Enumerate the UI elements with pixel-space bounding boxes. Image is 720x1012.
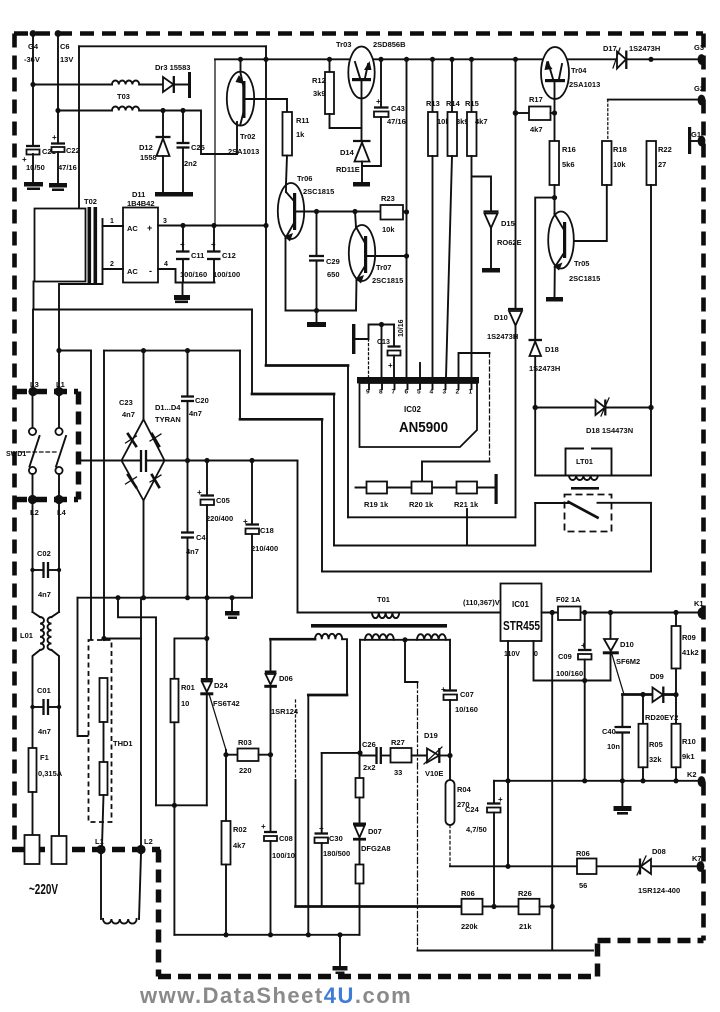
wire line B horizontal — [334, 545, 535, 547]
resistor R19 — [364, 482, 389, 510]
svg-text:5: 5 — [417, 389, 421, 396]
wire F1 to plug — [32, 792, 34, 835]
node terminal L1 — [54, 387, 63, 396]
wire y755 chain line — [360, 755, 376, 757]
svg-text:2SD856B: 2SD856B — [373, 40, 406, 49]
svg-text:27: 27 — [658, 160, 666, 169]
wire C30 column — [321, 753, 323, 833]
svg-text:2SC1815: 2SC1815 — [569, 274, 600, 283]
node junction R09 D09 — [673, 692, 678, 697]
svg-text:32k: 32k — [649, 755, 662, 764]
svg-text:D1...D4: D1...D4 — [155, 403, 181, 412]
ground C40 — [614, 806, 632, 815]
node junction R05 K2 — [640, 778, 645, 783]
border step down left — [156, 850, 162, 977]
svg-text:R06: R06 — [461, 889, 475, 898]
svg-text:Tr07: Tr07 — [376, 263, 391, 272]
node junction D24 R01 jog — [204, 636, 209, 641]
wire 46V top rail — [79, 45, 266, 47]
wire C12 stub — [213, 226, 215, 252]
border 220V heavy dashed line — [12, 847, 160, 853]
svg-text:1: 1 — [469, 389, 473, 396]
border bottom-right dashed segment — [598, 938, 704, 944]
wire G1 stub — [691, 140, 698, 142]
node terminal L4 — [54, 495, 63, 504]
wire R01 jog — [174, 638, 206, 678]
wire D06 top — [270, 639, 272, 671]
wire Tr06 collector down — [285, 238, 287, 311]
resistor R17 — [529, 95, 551, 134]
svg-text:C4: C4 — [196, 533, 206, 542]
svg-text:21k: 21k — [519, 922, 532, 931]
inductor degaussing coil — [103, 919, 137, 924]
wire D07 to bus — [359, 884, 361, 935]
wire y805 link — [156, 804, 207, 806]
wire R22 column to relay — [650, 185, 652, 408]
wire C12 down — [213, 259, 215, 283]
wire C6 column — [57, 34, 59, 144]
wire line B riser x334 — [333, 394, 335, 546]
diode Dr3 — [155, 63, 190, 93]
svg-text:C25: C25 — [191, 143, 205, 152]
wire D15 to ground — [490, 228, 492, 268]
wire Tr03 emitter to D14 — [361, 81, 363, 140]
wire C24 top jog — [493, 781, 495, 803]
svg-text:AC: AC — [127, 267, 138, 276]
svg-text:RD11E: RD11E — [336, 165, 360, 174]
wire Tr04 emitter column — [554, 83, 556, 141]
svg-text:C40: C40 — [602, 727, 616, 736]
wire C43 top stub — [380, 59, 382, 107]
svg-text:R27: R27 — [391, 738, 405, 747]
wire R05 to K2 line — [642, 767, 644, 781]
svg-text:T03: T03 — [117, 92, 130, 101]
node C13 terminal bar — [352, 324, 355, 354]
svg-text:4n7: 4n7 — [38, 727, 51, 736]
svg-text:AC: AC — [127, 224, 138, 233]
svg-text:10n: 10n — [607, 742, 620, 751]
capacitor C09 — [556, 641, 592, 678]
svg-text:47/16: 47/16 — [58, 163, 77, 172]
svg-text:1S2473H: 1S2473H — [629, 44, 660, 53]
node junction D06 R03 — [268, 752, 273, 757]
wire C24 to y906 — [493, 813, 495, 907]
svg-text:+: + — [52, 133, 57, 142]
node junction G4 rail — [30, 82, 35, 87]
wire line C horizontal — [322, 571, 651, 573]
wire 13V rail to choke lower — [58, 110, 112, 112]
svg-text:41k2: 41k2 — [682, 648, 699, 657]
wire y365 jog thick — [266, 364, 348, 367]
svg-text:180/500: 180/500 — [323, 849, 350, 858]
node junction R10 K2 — [673, 778, 678, 783]
wire loop drop dashed — [489, 353, 491, 462]
svg-text:D12: D12 — [139, 143, 153, 152]
wire y394 jog horizontal — [252, 393, 334, 396]
wire x552 column — [551, 613, 553, 907]
wire R13 to pin4 — [432, 156, 434, 378]
IC02 AN5900 box — [357, 377, 479, 447]
svg-text:D18 1S4473N: D18 1S4473N — [586, 426, 633, 435]
capacitor C43 — [374, 97, 406, 126]
wire centre tap jog — [405, 640, 418, 682]
svg-text:C20: C20 — [195, 396, 209, 405]
diode D19 — [424, 731, 443, 778]
wire -36V rail to choke — [33, 84, 112, 86]
node junction bus R12 — [327, 57, 332, 62]
node junction x552 y906 — [550, 904, 555, 909]
node terminal G2 — [698, 95, 706, 106]
node G1 bar — [688, 127, 691, 154]
wire D12 to ground — [162, 156, 164, 192]
node junction D18b line — [533, 405, 538, 410]
wire C13 bar jog — [356, 325, 395, 340]
wire C11 stub — [182, 226, 184, 252]
wire C25 to ground — [182, 148, 184, 193]
wire R11 top stub — [286, 99, 288, 112]
node junction bus R23col — [404, 57, 409, 62]
wire x552 to y950 — [551, 907, 553, 951]
ground C29 — [307, 322, 326, 327]
node junction bus Tr02 — [238, 57, 243, 62]
svg-text:D11: D11 — [132, 190, 145, 199]
node junction bus C08 — [268, 932, 273, 937]
svg-text:R20 1k: R20 1k — [409, 500, 434, 509]
wire y695 jog thick — [308, 694, 347, 697]
thyristor D10scr — [603, 613, 640, 667]
wire D11 feed column — [214, 59, 216, 225]
node junction C6 rail — [55, 108, 60, 113]
svg-text:220/400: 220/400 — [206, 514, 233, 523]
wire x295 column — [295, 780, 297, 907]
node terminal L2 bottom — [136, 845, 145, 854]
node junction Tr07 base x406 — [404, 253, 409, 258]
wire C08 to bus — [270, 841, 272, 935]
svg-text:R21 1k: R21 1k — [454, 500, 479, 509]
wire Tr07 base line — [367, 255, 407, 257]
svg-text:100/100: 100/100 — [213, 270, 240, 279]
diode D17 — [603, 44, 660, 69]
capacitor C13 — [388, 325, 401, 371]
capacitor C22 — [51, 133, 80, 172]
node junction y680 C09 — [582, 678, 587, 683]
wire R15 jog to D15 — [472, 177, 492, 212]
ground C22 — [49, 183, 67, 191]
fuse F02 — [558, 607, 581, 621]
transistor Tr03 — [348, 47, 374, 99]
wire x308 return column — [307, 695, 309, 935]
capacitor C4 — [181, 533, 206, 557]
node junction y597 gnd — [229, 595, 234, 600]
node junction y350 C20 — [185, 348, 190, 353]
capacitor C05 — [197, 488, 233, 523]
capacitor C21 — [22, 146, 56, 172]
wire G4 column — [32, 34, 34, 146]
wire y419 jog — [239, 351, 241, 420]
node junction Tr06 Tr07 gnd rail — [314, 308, 319, 313]
node junction bus R13 — [430, 57, 435, 62]
svg-text:+: + — [376, 97, 381, 106]
transistor Tr02 — [227, 72, 259, 156]
wire secondaryB left leg — [359, 640, 361, 753]
wire y394 jog — [251, 310, 253, 395]
svg-text:220: 220 — [239, 766, 252, 775]
diode D14 — [336, 141, 371, 174]
svg-text:47/16: 47/16 — [387, 117, 406, 126]
wire Tr02 emitter down — [236, 122, 238, 154]
svg-text:1SR124-400: 1SR124-400 — [638, 886, 680, 895]
resistor R27 — [391, 738, 412, 777]
svg-text:C05: C05 — [216, 496, 230, 505]
svg-text:R01: R01 — [181, 683, 195, 692]
svg-text:D10: D10 — [494, 313, 508, 322]
dashed box THD1 — [89, 640, 112, 822]
svg-text:2SC1815: 2SC1815 — [303, 187, 334, 196]
wire Tr05 emitter to ground — [554, 267, 556, 297]
capacitor C08 — [261, 822, 295, 860]
node junction L1 y350 — [56, 348, 61, 353]
wire L2 column upper — [32, 500, 34, 613]
wire STR455 right to K1 — [542, 612, 698, 614]
border step bottom right — [595, 941, 601, 977]
wire y597 ground rail — [78, 597, 253, 599]
wire D18a to LT01 line — [534, 356, 536, 476]
svg-text:R12: R12 — [312, 76, 326, 85]
node junction x508 y780 — [505, 778, 510, 783]
border left dashed — [12, 34, 17, 848]
resistor R05 — [639, 695, 663, 768]
svg-text:D08: D08 — [652, 847, 666, 856]
node junction bus R15 — [469, 57, 474, 62]
svg-text:FS6T42: FS6T42 — [213, 699, 240, 708]
wire bridge left stub — [79, 460, 122, 462]
wire bus to D10 — [515, 59, 517, 308]
node terminal K2 — [698, 776, 706, 787]
svg-text:D07: D07 — [368, 827, 382, 836]
fuse F1 — [29, 748, 63, 792]
inductor T03 lower winding — [112, 107, 139, 111]
svg-text:LT01: LT01 — [576, 457, 593, 466]
node junction y350 bridge — [141, 348, 146, 353]
wire T01 secondaryB line — [360, 639, 450, 641]
svg-text:R02: R02 — [233, 825, 247, 834]
node junction bus x266 — [263, 57, 268, 62]
svg-text:L2: L2 — [30, 508, 39, 517]
node junction C40 K2line — [620, 778, 625, 783]
node junction bus R14 — [449, 57, 454, 62]
resistor R06 — [461, 889, 483, 931]
svg-text:G3: G3 — [694, 43, 704, 52]
wire line B to relay riser — [534, 503, 536, 546]
svg-text:3: 3 — [443, 389, 447, 396]
node terminal G3 — [698, 54, 706, 65]
svg-text:650: 650 — [327, 270, 340, 279]
wire R27 to D19 — [412, 755, 428, 757]
rectifier D11 box — [123, 208, 158, 283]
svg-text:2n2: 2n2 — [184, 159, 197, 168]
svg-text:C30: C30 — [329, 834, 343, 843]
wire Tr07 emitter down — [355, 280, 358, 311]
ground C21 — [24, 182, 43, 190]
node terminal L2 — [28, 495, 37, 504]
node junction R17 left — [513, 110, 519, 116]
svg-text:13V: 13V — [60, 55, 73, 64]
svg-text:C24: C24 — [465, 805, 480, 814]
svg-text:THD1: THD1 — [113, 739, 133, 748]
svg-text:10: 10 — [181, 699, 189, 708]
wire y461 link — [422, 462, 490, 483]
node junction R23 right — [404, 209, 409, 214]
capacitor C20 — [181, 351, 194, 461]
svg-text:DFG2A8: DFG2A8 — [361, 844, 391, 853]
resistor R21 — [454, 482, 479, 510]
wire line A riser x348 — [347, 366, 349, 518]
svg-text:C13: C13 — [377, 339, 390, 346]
wire D11 pin2 — [103, 268, 124, 270]
wire STR455 pin110V drop — [507, 641, 509, 866]
svg-text:100/160: 100/160 — [180, 270, 207, 279]
svg-text:F02 1A: F02 1A — [556, 595, 581, 604]
node junction y597 C4 — [185, 595, 190, 600]
resistor R23 — [381, 194, 404, 234]
wire bridge bottom riser — [143, 501, 145, 598]
svg-text:C18: C18 — [260, 526, 274, 535]
node junction pin3 C11 — [180, 223, 185, 228]
node junction y694 R05 — [640, 692, 645, 697]
diode D18a — [529, 340, 561, 373]
wire y866 K7 line — [450, 865, 697, 867]
svg-text:R13: R13 — [426, 99, 440, 108]
svg-text:C11: C11 — [191, 251, 204, 260]
node junction y805 R01 — [172, 803, 177, 808]
wire R10 to K2 line — [675, 767, 677, 781]
svg-text:+: + — [319, 824, 324, 833]
wire D11 pin3 rail — [158, 225, 266, 227]
wire C18 stub — [251, 461, 253, 525]
svg-text:8: 8 — [379, 389, 383, 396]
switch enclosure dashed bottom — [14, 497, 78, 503]
ground y597 — [225, 611, 240, 619]
node junction rail C20 — [185, 458, 190, 463]
resistor R22 — [647, 141, 672, 185]
svg-text:10/160: 10/160 — [455, 705, 478, 714]
inductor T01 secondaryA winding — [315, 634, 342, 639]
wire C18 down — [251, 534, 253, 598]
wire R16 to Tr05 — [554, 185, 556, 214]
svg-text:C09: C09 — [558, 652, 572, 661]
svg-text:SF6M2: SF6M2 — [616, 657, 640, 666]
wire L4 to plug — [58, 707, 60, 836]
svg-text:D10: D10 — [620, 640, 634, 649]
resistor R11 — [283, 112, 310, 156]
wire pin8 drop — [381, 325, 383, 378]
wire R15 stub — [471, 59, 473, 112]
wire D09 to R09 column — [664, 694, 677, 696]
wire T02 secondary link — [102, 219, 104, 269]
svg-text:0: 0 — [534, 651, 538, 658]
relay contact blade — [569, 502, 598, 518]
svg-text:+: + — [211, 240, 216, 249]
node junction R22 D18b — [648, 405, 653, 410]
wire y906 R06 to R26 — [482, 906, 519, 908]
node junction D18a tap — [552, 195, 557, 200]
svg-text:4: 4 — [430, 389, 434, 396]
capacitor C01 — [30, 699, 61, 736]
svg-text:-36V: -36V — [24, 55, 40, 64]
wire C09 column to K2 line — [584, 681, 586, 781]
svg-text:D06: D06 — [279, 674, 293, 683]
wire C40 column — [621, 695, 623, 727]
svg-text:2SA1013: 2SA1013 — [228, 147, 259, 156]
ground Tr05 — [546, 297, 563, 302]
node junction x508 y866 — [505, 864, 510, 869]
wire pin5 stub — [419, 363, 421, 378]
resistor R09 — [672, 626, 699, 669]
wire R09 to y694 — [675, 669, 677, 695]
node G4 top junction — [30, 30, 37, 37]
svg-text:D18: D18 — [545, 345, 559, 354]
svg-text:R26: R26 — [518, 889, 532, 898]
wire C11 down — [182, 259, 184, 283]
node C6 top junction — [55, 30, 62, 37]
wire R26 to x552 — [540, 906, 553, 908]
svg-text:9k1: 9k1 — [682, 752, 695, 761]
node terminal K1 — [698, 608, 706, 619]
svg-text:3k9: 3k9 — [313, 89, 326, 98]
svg-text:D19: D19 — [424, 731, 438, 740]
wire R14 stub — [451, 59, 453, 112]
node junction C09col K2 — [582, 778, 587, 783]
node junction bus R02 — [223, 932, 228, 937]
wire D11 pin1 — [103, 225, 124, 227]
wire C26 to R27 — [381, 755, 391, 757]
wire x417 dashdot column — [417, 682, 419, 951]
capacitor C07 — [441, 685, 478, 714]
wire D07a to zener — [359, 798, 361, 823]
svg-text:F1: F1 — [40, 753, 49, 762]
transistor Tr07 — [349, 225, 403, 285]
IC02 pin ticks and numbers — [366, 384, 473, 396]
wire R02 to bus — [225, 865, 227, 935]
wire secondaryB right leg — [449, 640, 451, 690]
svg-text:C02: C02 — [37, 549, 51, 558]
svg-text:100/10: 100/10 — [272, 851, 295, 860]
wire Dr3 to stub bar — [174, 84, 189, 86]
svg-text:T01: T01 — [377, 595, 390, 604]
wire D10scr gate diagonal — [612, 655, 624, 695]
svg-text:C29: C29 — [326, 257, 340, 266]
resistor R12 — [312, 72, 334, 114]
svg-text:STR455: STR455 — [503, 619, 540, 633]
resistor R06b — [576, 849, 597, 890]
svg-text:4,7/50: 4,7/50 — [466, 825, 487, 834]
svg-text:D09: D09 — [650, 672, 664, 681]
wire R17 left stub — [516, 112, 530, 114]
wire STR455 pin0 drop — [534, 641, 611, 681]
wire relay output — [598, 503, 652, 572]
resistor R18 — [602, 141, 627, 185]
svg-text:RD20EY2: RD20EY2 — [645, 713, 678, 722]
wire secondary to L1 column — [59, 269, 103, 386]
svg-text:2SA1013: 2SA1013 — [569, 80, 600, 89]
svg-text:C22: C22 — [66, 146, 80, 155]
wire x206 D24 column upper — [206, 598, 208, 679]
wire C11 C12 bottom rail — [176, 282, 215, 284]
svg-text:+: + — [147, 223, 152, 233]
wire ground stem y597 — [231, 598, 233, 611]
svg-text:4k7: 4k7 — [475, 117, 488, 126]
resistor R26 — [518, 889, 540, 931]
